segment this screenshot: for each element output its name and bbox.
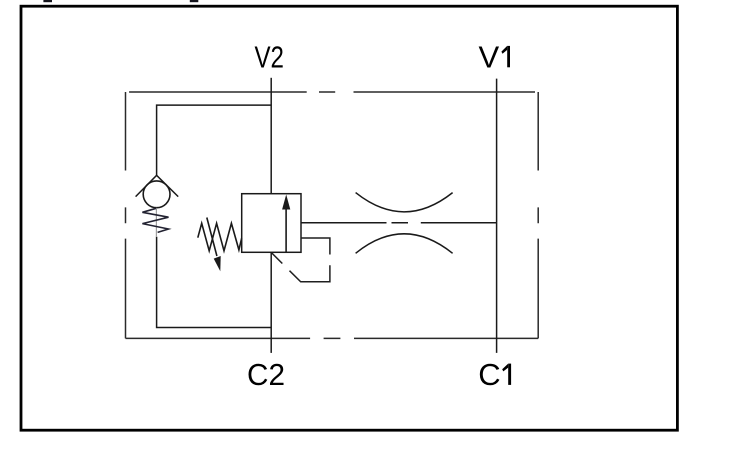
svg-text:C2: C2: [247, 357, 285, 392]
svg-text:V: V: [478, 39, 499, 74]
adjustment arrow: [207, 218, 221, 272]
pilot line (dashed): [272, 238, 330, 282]
svg-text:C: C: [478, 357, 500, 392]
svg-text:V2: V2: [254, 39, 284, 74]
check valve seat: [136, 175, 179, 196]
orifice upper curve: [356, 193, 453, 212]
flow arrow inside pilot valve: [282, 195, 290, 253]
pilot valve body U1: [242, 194, 301, 253]
port C1 label: [478, 357, 511, 392]
check valve ball: [143, 181, 170, 208]
check valve stem (light line through spring): [155, 208, 157, 237]
cropped text remnant marks at top edge: [43, 0, 198, 2]
orifice lower curve: [356, 234, 453, 254]
wire V2 to pilot valve (upper main line): [270, 78, 272, 194]
wire check valve branch bottom: [157, 237, 272, 328]
valve body enclosure (dash-dot boundary): [126, 92, 539, 338]
wire check valve branch top: [157, 105, 272, 175]
wire pilot valve to orifice (flow line with broken throat): [301, 222, 497, 224]
port V1 label: [478, 39, 510, 74]
check valve spring: [142, 208, 168, 232]
relief spring: [198, 223, 242, 251]
wire V1 to C1 (right main line): [496, 79, 498, 353]
wire pilot valve to C2 (lower main line): [270, 252, 272, 353]
